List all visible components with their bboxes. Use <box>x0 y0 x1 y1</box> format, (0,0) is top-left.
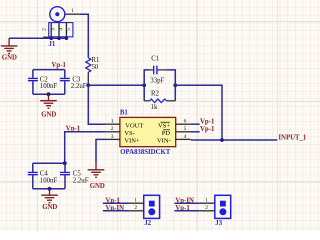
ground GND at pin 3 <box>88 162 105 177</box>
pin 3 <box>105 138 120 140</box>
capacitor C3 <box>60 78 70 80</box>
svg-text:1k: 1k <box>151 104 158 111</box>
junction INPUT node <box>220 138 224 142</box>
svg-text:50: 50 <box>92 64 99 71</box>
svg-text:OPA838SIDCKT: OPA838SIDCKT <box>120 149 171 156</box>
J3 pin 1 stub <box>200 202 215 204</box>
J2 pin 2 stub <box>129 210 144 212</box>
svg-text:4: 4 <box>184 134 187 140</box>
capacitor C1 <box>154 66 157 75</box>
pin 1 <box>105 123 120 125</box>
wire R1 to node A <box>87 72 89 84</box>
svg-text:GND: GND <box>90 183 105 190</box>
resistor R2 <box>150 99 167 103</box>
R2 right lead <box>167 100 176 102</box>
C3 top lead <box>64 70 66 78</box>
svg-text:5: 5 <box>184 126 187 132</box>
wire node A to feedback left node <box>88 84 144 86</box>
ground GND top-left <box>1 38 18 53</box>
junction feedback left <box>142 83 146 87</box>
svg-text:VS-: VS- <box>124 130 134 137</box>
C4 bottom lead <box>32 175 34 189</box>
C1 right lead <box>158 69 167 71</box>
junction C2C3 ground <box>47 92 51 96</box>
ground GND below C4 C5 <box>41 189 58 203</box>
wire C2 C3 bottom rail <box>33 93 65 95</box>
J1 pin 2 stub <box>43 36 49 38</box>
wire J2 pin 2 <box>103 210 129 212</box>
svg-text:VS+: VS+ <box>158 122 170 129</box>
junction node A <box>86 83 90 87</box>
wire C4 C5 bottom rail <box>33 188 65 190</box>
svg-text:GND: GND <box>2 55 17 62</box>
capacitor C5 <box>60 172 70 174</box>
svg-text:3: 3 <box>51 28 57 31</box>
J3 pin2 pad circle <box>219 208 226 215</box>
capacitor C4 <box>28 172 38 174</box>
wire pin 6 stub <box>191 123 200 125</box>
svg-text:GND: GND <box>41 111 56 118</box>
svg-text:1: 1 <box>71 8 74 14</box>
svg-text:VIN+: VIN+ <box>124 138 140 145</box>
svg-text:Vp-1: Vp-1 <box>52 62 67 69</box>
svg-text:2: 2 <box>205 205 208 211</box>
svg-text:Vp-1: Vp-1 <box>200 126 215 133</box>
pin 5 <box>176 131 191 133</box>
J3 pin1 pad square <box>220 201 226 207</box>
wire J1 pin1 to R1 <box>80 14 89 58</box>
C1 left lead <box>150 69 153 71</box>
junction J1 pin3 <box>49 36 53 40</box>
junction feedback right <box>173 83 177 87</box>
wire Vn-1 to pin 2 <box>65 132 105 163</box>
wire pin 5 stub <box>191 131 200 133</box>
svg-text:2.2uF: 2.2uF <box>73 177 89 184</box>
svg-text:C1: C1 <box>151 56 159 63</box>
wire pin 4 to INPUT_1 <box>191 139 277 141</box>
junction J1 pin5 <box>65 36 69 40</box>
C5 bottom lead <box>64 175 66 189</box>
junction C4C5 ground <box>48 187 52 191</box>
svg-text:2: 2 <box>42 28 48 31</box>
J2 pin 1 stub <box>129 202 144 204</box>
svg-text:2.2uF: 2.2uF <box>71 83 87 90</box>
svg-text:J1: J1 <box>49 41 56 48</box>
svg-text:J2: J2 <box>144 220 151 227</box>
svg-text:2: 2 <box>111 126 114 132</box>
svg-text:PD: PD <box>162 130 171 137</box>
pin 6 <box>176 123 191 125</box>
C2 bottom lead <box>32 81 34 94</box>
svg-text:1: 1 <box>134 198 137 204</box>
wire J3 pin 2 <box>174 210 199 212</box>
svg-text:GND: GND <box>42 204 57 211</box>
svg-text:2: 2 <box>134 205 137 211</box>
wire C1 branch left <box>144 70 150 85</box>
wire C1 branch right <box>166 70 175 85</box>
svg-text:33pF: 33pF <box>150 78 164 85</box>
svg-text:3: 3 <box>111 134 114 140</box>
wire R2 branch left <box>143 85 145 101</box>
svg-text:100nF: 100nF <box>40 177 58 184</box>
svg-text:1: 1 <box>205 198 208 204</box>
C2 top lead <box>32 70 34 78</box>
svg-text:6: 6 <box>184 119 187 125</box>
pin 4 <box>176 138 191 140</box>
J2 pin2 pad circle <box>148 208 155 215</box>
J1 pin 1 stub <box>65 13 80 15</box>
connector J3 body <box>215 195 231 218</box>
C3 bottom lead <box>64 81 66 94</box>
wire node A to VOUT pin 1 <box>88 85 105 124</box>
svg-text:R2: R2 <box>151 90 160 97</box>
wire J3 pin 1 <box>174 202 199 204</box>
op-amp B1 body <box>120 117 176 146</box>
svg-text:R1: R1 <box>92 57 100 64</box>
svg-text:1: 1 <box>111 119 114 125</box>
C4 top lead <box>32 163 34 172</box>
svg-text:J3: J3 <box>215 220 222 227</box>
J3 pin 2 stub <box>200 210 215 212</box>
C5 top lead <box>64 163 66 172</box>
J2 pin1 pad square <box>149 201 155 207</box>
wire J2 pin 1 <box>103 202 129 204</box>
capacitor C2 <box>28 78 38 80</box>
wire feedback right to INPUT node <box>175 85 222 140</box>
wire C2 C3 top rail <box>33 69 65 71</box>
wire J1 shield bus <box>9 37 66 39</box>
svg-text:B1: B1 <box>120 110 129 117</box>
svg-text:INPUT_1: INPUT_1 <box>278 134 307 141</box>
svg-text:4: 4 <box>58 28 64 31</box>
svg-text:VIN-: VIN- <box>157 138 171 145</box>
wire C4 C5 top rail <box>33 162 65 164</box>
junction J1 pin4 <box>57 36 61 40</box>
svg-text:5: 5 <box>66 28 72 31</box>
junction Vn-1 rail <box>63 161 67 165</box>
connector J1 <box>49 7 73 39</box>
svg-text:VOUT: VOUT <box>125 122 143 129</box>
svg-text:100nF: 100nF <box>40 83 58 90</box>
ground GND below C2 C3 <box>40 94 57 108</box>
wire pin 3 to ground <box>96 139 105 162</box>
resistor R1 <box>86 58 91 73</box>
R2 left lead <box>144 100 150 102</box>
svg-text:Vp-1: Vp-1 <box>200 119 215 126</box>
connector J2 body <box>144 195 160 218</box>
wire R2 branch right <box>174 85 176 101</box>
pin 2 <box>105 131 120 133</box>
